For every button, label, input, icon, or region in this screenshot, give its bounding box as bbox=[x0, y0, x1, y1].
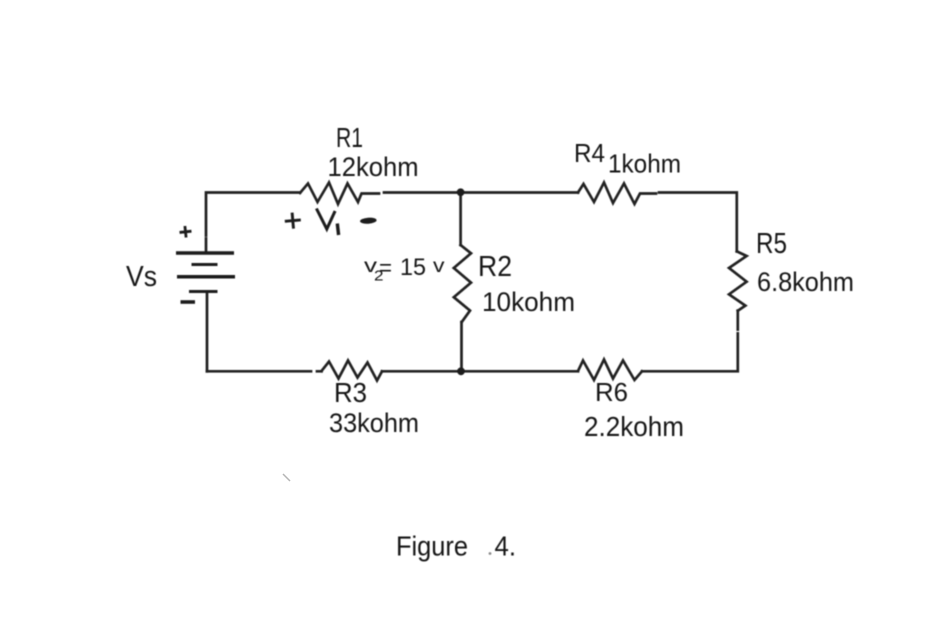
junction node bottom of R2 bbox=[457, 367, 465, 375]
label v2 = 15 v bbox=[364, 254, 445, 285]
caption Figure 4. bbox=[396, 530, 516, 561]
svg-text:33kohm: 33kohm bbox=[329, 408, 419, 438]
battery Vs bbox=[176, 253, 235, 292]
svg-text:Figure: Figure bbox=[396, 530, 468, 561]
svg-text:15: 15 bbox=[400, 254, 426, 281]
wire: left vertical lower bbox=[206, 292, 209, 372]
svg-text:4.: 4. bbox=[495, 531, 517, 562]
battery plate 3 (long) bbox=[177, 275, 235, 279]
wire: top rail middle segment bbox=[384, 191, 578, 194]
wire: middle vertical lower bbox=[460, 322, 463, 371]
wire: middle vertical upper bbox=[459, 192, 462, 245]
resistor R4 bbox=[578, 183, 656, 205]
battery plate 1 (long, +) bbox=[176, 251, 234, 255]
svg-text:=: = bbox=[379, 255, 392, 281]
wire: bottom rail middle segment bbox=[382, 370, 578, 373]
battery - polarity mark bbox=[181, 300, 196, 304]
resistor R2 bbox=[454, 245, 471, 322]
svg-text:R1: R1 bbox=[336, 122, 363, 153]
label - of V1 bbox=[360, 217, 377, 224]
svg-text:R3: R3 bbox=[334, 377, 367, 408]
junction node top of R2 bbox=[457, 188, 465, 196]
svg-text:R4: R4 bbox=[574, 138, 605, 168]
battery plate 2 (short) bbox=[192, 263, 218, 266]
svg-text:v: v bbox=[433, 256, 445, 277]
resistor R1 bbox=[300, 183, 379, 205]
svg-text:12kohm: 12kohm bbox=[328, 152, 419, 182]
resistor R5 bbox=[729, 251, 747, 310]
wire: top rail right segment + right vertical upper bbox=[659, 193, 737, 252]
label V1 bbox=[316, 209, 338, 236]
wire: right vertical lower segment b + bottom rail right corner bbox=[642, 333, 738, 371]
svg-text:1kohm: 1kohm bbox=[608, 149, 681, 179]
svg-text:R6: R6 bbox=[595, 377, 628, 407]
wire: bottom rail left segment bbox=[207, 370, 322, 373]
label + of V1 bbox=[284, 212, 301, 229]
battery plate 4 (short, -) bbox=[189, 290, 218, 293]
svg-text:R2: R2 bbox=[478, 251, 512, 283]
battery + polarity mark bbox=[179, 225, 192, 238]
svg-text:R5: R5 bbox=[756, 228, 787, 260]
svg-text:10kohm: 10kohm bbox=[482, 287, 575, 317]
wire: left vertical upper + top rail left segment bbox=[206, 193, 300, 254]
resistor R6 bbox=[578, 360, 642, 381]
svg-text:Vs: Vs bbox=[126, 261, 157, 293]
wire: right vertical lower segment a bbox=[736, 311, 739, 330]
svg-text:6.8kohm: 6.8kohm bbox=[757, 267, 854, 297]
svg-text:2.2kohm: 2.2kohm bbox=[584, 411, 684, 442]
resistor R3 bbox=[322, 361, 383, 381]
